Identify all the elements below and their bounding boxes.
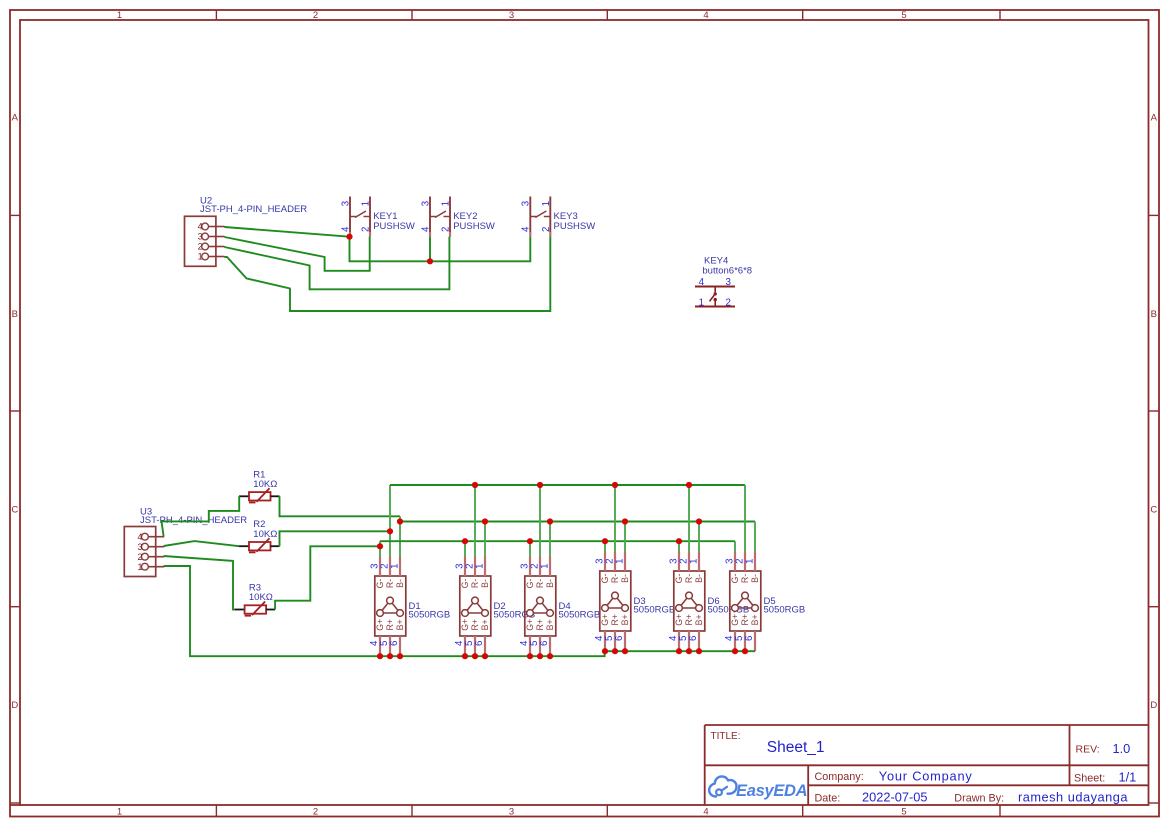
svg-text:R+: R+ (535, 619, 545, 631)
svg-text:5050RGB: 5050RGB (559, 610, 601, 621)
label KEY4 value button6*6*8 (702, 266, 752, 277)
switch KEY1 PUSHSW (350, 197, 370, 237)
svg-text:4: 4 (420, 226, 431, 232)
svg-text:Sheet:: Sheet: (1074, 772, 1105, 784)
svg-text:B+: B+ (620, 614, 630, 625)
svg-text:B-: B- (620, 574, 630, 583)
svg-text:Date:: Date: (815, 792, 841, 804)
label D6 (708, 596, 720, 607)
junction bus B- at D2 (482, 518, 488, 524)
D1 pin numbers and pad labels (369, 564, 405, 646)
svg-text:Drawn By:: Drawn By: (954, 792, 1004, 804)
svg-text:2: 2 (441, 227, 452, 232)
svg-text:D: D (1150, 700, 1157, 711)
title block texts (711, 731, 1137, 804)
svg-text:Your Company: Your Company (879, 768, 973, 783)
junction bus G- at D3 (602, 538, 608, 544)
svg-text:3: 3 (509, 10, 514, 21)
svg-text:B+: B+ (395, 619, 405, 630)
svg-text:1: 1 (744, 559, 755, 564)
D6 pin numbers and pad labels (668, 559, 704, 641)
junction bus B- at D6 (696, 518, 702, 524)
svg-text:5050RGB: 5050RGB (764, 605, 806, 616)
svg-text:G+: G+ (674, 614, 684, 626)
wire U3 pin2 to R3 (164, 556, 235, 610)
svg-text:1: 1 (441, 201, 452, 206)
svg-text:R+: R+ (610, 614, 620, 626)
wire drop to D1 pin3 (379, 541, 381, 557)
junction R2 net at D1 pin2 (387, 528, 393, 534)
junction bus R- at D4 (537, 482, 543, 488)
wire drop to D4 pin3 (529, 541, 531, 557)
wire drop to D2 pin1 (484, 522, 486, 557)
label KEY4 (704, 255, 728, 266)
label U2 (200, 195, 212, 206)
KEY4 pin numbers 4 3 1 2 (699, 277, 732, 309)
svg-text:4: 4 (198, 222, 203, 232)
label R3 (249, 583, 261, 594)
svg-text:R+: R+ (684, 614, 694, 626)
junction dots bottom bus row2 (602, 648, 748, 654)
junction bus G- at D4 (527, 538, 533, 544)
svg-text:G-: G- (375, 579, 385, 589)
svg-text:A: A (1151, 112, 1158, 123)
switch KEY3 PUSHSW (530, 197, 550, 237)
resistor R1 (239, 488, 280, 502)
wire U3 pin4 to R1 (162, 496, 240, 536)
svg-text:5050RGB: 5050RGB (634, 605, 676, 616)
label KEY3 value PUSHSW (554, 221, 596, 232)
svg-text:6: 6 (744, 636, 755, 641)
label KEY2 value PUSHSW (453, 221, 495, 232)
svg-text:B+: B+ (694, 614, 704, 625)
svg-text:6: 6 (688, 636, 699, 641)
svg-text:2: 2 (725, 298, 730, 309)
wire drop to D5 pin1 (754, 522, 756, 552)
svg-text:3: 3 (521, 201, 532, 206)
svg-text:6: 6 (389, 641, 400, 646)
svg-text:1: 1 (389, 564, 400, 569)
wire drop to D5 pin2 (744, 485, 746, 552)
svg-text:G-: G- (525, 579, 535, 589)
svg-text:2: 2 (313, 807, 318, 818)
EasyEDA logo (709, 776, 807, 800)
svg-text:3: 3 (725, 277, 731, 288)
wire drop to D3 pin2 (614, 485, 616, 552)
svg-text:3: 3 (509, 807, 514, 818)
wire drop to D1 pin2 (389, 485, 391, 557)
wire U2 pin1 to KEY3 pin2 (224, 237, 550, 311)
svg-text:B+: B+ (750, 614, 760, 625)
svg-text:1: 1 (198, 252, 203, 262)
svg-text:R-: R- (740, 574, 750, 583)
wire drop to D2 pin2 (474, 485, 476, 557)
svg-text:1: 1 (699, 298, 704, 309)
label KEY3 (554, 211, 578, 222)
svg-text:1: 1 (137, 562, 142, 572)
svg-text:B-: B- (694, 574, 704, 583)
wire R2 to net R- (280, 531, 391, 546)
wire KEY2 pin4 drop (429, 237, 431, 262)
resistor R3 (235, 602, 276, 616)
svg-text:G-: G- (600, 574, 610, 584)
svg-text:R+: R+ (385, 619, 395, 631)
junction R3 net at D1 pin3 (377, 543, 383, 549)
wire drop to D2 pin3 (464, 541, 466, 557)
label R1 value 10K&#937; (253, 479, 277, 490)
label R1 (253, 469, 265, 480)
connector U3 JST-PH_4-PIN_HEADER (124, 527, 164, 577)
svg-text:6: 6 (474, 641, 485, 646)
svg-text:6: 6 (539, 641, 550, 646)
wire U3 pin3 to R2 (164, 541, 240, 546)
svg-text:1: 1 (117, 807, 122, 818)
label U2 value JST-PH_4-PIN_HEADER (200, 204, 307, 215)
label KEY1 (373, 211, 397, 222)
svg-text:1: 1 (117, 10, 122, 21)
svg-text:4: 4 (703, 807, 708, 818)
svg-text:1/1: 1/1 (1119, 770, 1137, 785)
svg-text:3: 3 (137, 542, 142, 552)
junction bus B- at D3 (622, 518, 628, 524)
switch KEY2 PUSHSW (430, 197, 450, 237)
svg-text:R-: R- (535, 579, 545, 588)
KEY1 pin numbers 3 1 4 2 (340, 201, 371, 232)
svg-text:B: B (12, 309, 18, 320)
svg-text:REV:: REV: (1076, 743, 1100, 755)
connector U2 JST-PH_4-PIN_HEADER (185, 216, 225, 266)
D5 pin numbers and pad labels (724, 559, 760, 641)
label KEY1 value PUSHSW (373, 221, 415, 232)
label D3 value 5050RGB (634, 605, 676, 616)
svg-text:1: 1 (474, 564, 485, 569)
svg-text:5050RGB: 5050RGB (708, 605, 750, 616)
wire R1 to D1 pin1 (net B-) (280, 496, 401, 516)
svg-text:B: B (1151, 309, 1157, 320)
label D5 value 5050RGB (764, 605, 806, 616)
junction KEY1 pin4 (346, 234, 352, 240)
wire U3 pin1 to common anode bottom bus (164, 566, 755, 656)
label D2 (494, 601, 506, 612)
title block lines (705, 725, 1149, 805)
D2 pin numbers and pad labels (454, 564, 490, 646)
label R3 value 10K&#937; (249, 592, 273, 603)
wire U2 pin4 to KEY1 pin4 (224, 227, 349, 237)
svg-text:B-: B- (480, 579, 490, 588)
LED D1 5050RGB (375, 557, 406, 657)
resistor R2 (239, 538, 280, 552)
svg-text:C: C (11, 504, 18, 515)
svg-text:5: 5 (901, 807, 906, 818)
svg-text:G+: G+ (460, 619, 470, 631)
svg-text:1: 1 (541, 201, 552, 206)
svg-text:B+: B+ (480, 619, 490, 630)
svg-text:4: 4 (703, 10, 708, 21)
svg-text:5050RGB: 5050RGB (409, 610, 451, 621)
LED D2 5050RGB (460, 557, 491, 657)
svg-text:G+: G+ (600, 614, 610, 626)
svg-text:button6*6*8: button6*6*8 (702, 266, 752, 277)
wire bus G- from D1 pin3 to D5 pin3 (380, 540, 735, 542)
svg-text:4: 4 (137, 532, 142, 542)
LED D6 5050RGB (674, 552, 705, 652)
junction bus G- at D2 (462, 538, 468, 544)
label D1 value 5050RGB (409, 610, 451, 621)
svg-text:R-: R- (385, 579, 395, 588)
wire drop to D6 pin1 (698, 522, 700, 552)
label D2 value 5050RGB (494, 610, 536, 621)
label R2 (253, 519, 265, 530)
svg-text:2022-07-05: 2022-07-05 (862, 790, 927, 805)
LED D5 5050RGB (730, 552, 761, 652)
KEY2 pin numbers 3 1 4 2 (420, 201, 451, 232)
wire drop to D1 pin1 (399, 516, 401, 556)
svg-text:Company:: Company: (815, 771, 864, 783)
D3 pin numbers and pad labels (594, 559, 630, 641)
wire drop to D3 pin3 (604, 541, 606, 552)
wire bus B- to D5 pin1 (400, 521, 755, 523)
svg-text:1.0: 1.0 (1113, 741, 1131, 756)
svg-text:1: 1 (539, 564, 550, 569)
svg-text:R-: R- (470, 579, 480, 588)
label D3 (634, 596, 646, 607)
svg-text:4: 4 (340, 226, 351, 232)
svg-text:G-: G- (460, 579, 470, 589)
LED D4 5050RGB (525, 557, 556, 657)
svg-text:G+: G+ (375, 619, 385, 631)
switch KEY4 button6*6*8 (695, 287, 735, 307)
wire drop to D3 pin1 (624, 522, 626, 552)
wire U2 pin3 to KEY1 pin2 (224, 237, 369, 271)
svg-text:Sheet_1: Sheet_1 (767, 739, 825, 756)
label D5 (764, 596, 776, 607)
svg-text:6: 6 (614, 636, 625, 641)
svg-text:B-: B- (750, 574, 760, 583)
label D4 value 5050RGB (559, 610, 601, 621)
D4 pin numbers and pad labels (519, 564, 555, 646)
svg-text:1: 1 (614, 559, 625, 564)
svg-text:JST-PH_4-PIN_HEADER: JST-PH_4-PIN_HEADER (200, 204, 307, 215)
svg-text:G-: G- (730, 574, 740, 584)
label D1 (409, 601, 421, 612)
svg-text:EasyEDA: EasyEDA (736, 782, 807, 800)
svg-text:G-: G- (674, 574, 684, 584)
svg-text:2: 2 (541, 227, 552, 232)
label U3 value JST-PH_4-PIN_HEADER (140, 515, 247, 526)
svg-text:B+: B+ (545, 619, 555, 630)
wire drop to D4 pin1 (549, 522, 551, 557)
junction bus R- at D2 (472, 482, 478, 488)
svg-text:A: A (12, 112, 19, 123)
svg-text:1: 1 (361, 201, 372, 206)
svg-text:1: 1 (688, 559, 699, 564)
junction R1 net at D1 pin1 (397, 518, 403, 524)
svg-text:2: 2 (361, 227, 372, 232)
svg-text:G+: G+ (730, 614, 740, 626)
svg-text:ramesh udayanga: ramesh udayanga (1018, 790, 1128, 805)
wire drop to D5 pin3 (734, 541, 736, 552)
svg-text:4: 4 (699, 277, 705, 288)
svg-text:2: 2 (137, 552, 142, 562)
junction KEY2 pin4 (427, 258, 433, 264)
svg-text:10KΩ: 10KΩ (253, 479, 277, 490)
junction bus R- at D3 (612, 482, 618, 488)
label KEY2 (453, 211, 477, 222)
svg-text:C: C (1150, 504, 1157, 515)
label D6 value 5050RGB (708, 605, 750, 616)
wire bus R- from D1 pin2 to D5 pin2 (390, 484, 745, 486)
svg-text:4: 4 (521, 226, 532, 232)
svg-text:G+: G+ (525, 619, 535, 631)
svg-text:R-: R- (610, 574, 620, 583)
svg-text:5: 5 (901, 10, 906, 21)
LED D3 5050RGB (600, 552, 631, 652)
svg-text:10KΩ: 10KΩ (249, 592, 273, 603)
junction bus G- at D6 (676, 538, 682, 544)
svg-text:TITLE:: TITLE: (711, 731, 741, 742)
svg-text:R+: R+ (740, 614, 750, 626)
svg-text:B-: B- (395, 579, 405, 588)
svg-text:3: 3 (198, 232, 203, 242)
svg-text:PUSHSW: PUSHSW (373, 221, 415, 232)
svg-text:3: 3 (420, 201, 431, 206)
wire drop to D4 pin2 (539, 485, 541, 557)
svg-text:2: 2 (198, 242, 203, 252)
KEY3 pin numbers 3 1 4 2 (521, 201, 552, 232)
junction bus R- at D6 (686, 482, 692, 488)
svg-text:PUSHSW: PUSHSW (554, 221, 596, 232)
svg-text:PUSHSW: PUSHSW (453, 221, 495, 232)
svg-text:R-: R- (684, 574, 694, 583)
wire drop to D6 pin2 (688, 485, 690, 552)
wire R3 to net G- (275, 546, 380, 609)
label R2 value 10K&#937; (253, 529, 277, 540)
svg-text:R+: R+ (470, 619, 480, 631)
label D4 (559, 601, 571, 612)
svg-text:B-: B- (545, 579, 555, 588)
wire KEY1 pin4 to KEY2 pin4 to KEY3 pin4 (350, 237, 531, 262)
wire U2 pin2 to KEY2 pin2 (224, 237, 449, 290)
svg-text:3: 3 (340, 201, 351, 206)
label U3 (140, 507, 152, 518)
svg-text:2: 2 (313, 10, 318, 21)
wire drop to D6 pin3 (678, 541, 680, 552)
junction bus B- at D4 (547, 518, 553, 524)
svg-text:D: D (11, 700, 18, 711)
svg-text:10KΩ: 10KΩ (253, 529, 277, 540)
junction dots bottom bus row1 (377, 653, 553, 659)
